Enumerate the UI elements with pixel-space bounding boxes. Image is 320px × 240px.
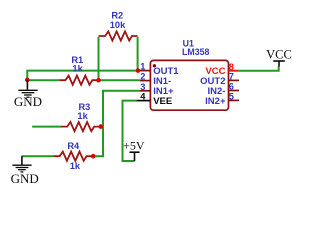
pin 8 stub (red) (229, 70, 239, 72)
resistor R1 (59, 76, 98, 85)
wire pin8 to VCC (238, 66, 279, 71)
svg-text:R4: R4 (67, 141, 80, 151)
svg-text:1: 1 (140, 62, 145, 72)
ground GND1 (18, 80, 37, 97)
resistor R4 (53, 152, 93, 161)
svg-text:8: 8 (229, 62, 234, 72)
resistor R2 (99, 31, 138, 40)
power +5V (129, 152, 139, 161)
svg-text:3: 3 (140, 82, 145, 92)
wire R2 left leg down to R1 junction (98, 37, 100, 80)
svg-text:GND: GND (11, 171, 39, 186)
pin 4 stub (black) (137, 100, 151, 102)
svg-text:IN2+: IN2+ (205, 96, 226, 107)
svg-text:VCC: VCC (266, 48, 292, 62)
wire R3 left open end (32, 126, 61, 128)
svg-text:7: 7 (229, 72, 234, 82)
svg-text:4: 4 (140, 92, 146, 102)
wire vertical R3 junction to R4 corner (93, 127, 103, 157)
svg-text:6: 6 (229, 82, 234, 92)
op-amp U1 LM358 body (150, 60, 228, 110)
svg-text:VEE: VEE (153, 96, 172, 107)
pin 2 stub (140, 80, 151, 82)
wire R2 right leg down to pin1 wire (137, 37, 139, 71)
pin 3 stub (140, 90, 151, 92)
power VCC (273, 61, 285, 67)
svg-text:5: 5 (229, 92, 234, 102)
svg-text:2: 2 (140, 72, 145, 82)
wire GND1 dot to R1 left (27, 79, 59, 81)
wire top net: GND corner to pin1 (27, 71, 138, 80)
wire pin3 to vertical (103, 91, 140, 127)
wire R1 junction to pin2 (99, 79, 140, 81)
svg-text:1k: 1k (77, 111, 88, 121)
svg-text:1k: 1k (70, 161, 81, 171)
pin 6 stub (229, 90, 240, 92)
pin 7 stub (229, 79, 240, 81)
svg-text:+5V: +5V (123, 138, 145, 152)
svg-text:GND: GND (14, 94, 42, 109)
pin 1 stub (140, 70, 151, 72)
pin 5 stub (229, 99, 240, 101)
wire pin4 VEE to +5V (123, 101, 137, 161)
svg-text:1k: 1k (72, 64, 83, 74)
svg-text:LM358: LM358 (182, 47, 209, 57)
wire R4 left to GND2 (22, 155, 54, 157)
junction dot R1 right (96, 78, 101, 83)
junction dot R3 right (99, 124, 104, 129)
ground GND2 (12, 156, 31, 172)
svg-text:10k: 10k (110, 20, 126, 30)
U1 part marker dot (153, 64, 156, 67)
junction dot R2 right leg (136, 68, 141, 73)
junction dot GND1 (25, 78, 30, 83)
junction dot R4 right (91, 154, 96, 159)
resistor R3 (61, 122, 100, 131)
